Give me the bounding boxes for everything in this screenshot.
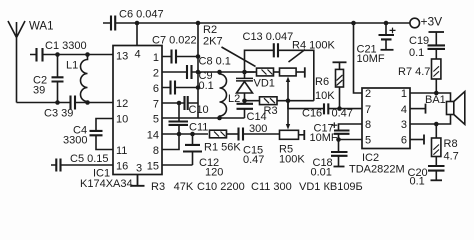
svg-text:R3 47K: R3 47K [151,181,194,193]
node: C12 drop [190,132,195,137]
svg-text:C8 0.1: C8 0.1 [199,56,231,68]
node: L2 top [217,70,222,75]
svg-text:300: 300 [249,123,267,135]
terminal +3V [410,18,420,28]
wire: +3V top rail [137,22,410,24]
wire: tank top row to pin 13 [58,54,114,56]
svg-text:+3V: +3V [421,15,443,29]
wire: IC2 pin 5 row [339,139,363,141]
resistor R7 [432,59,441,93]
capacitor C18 [331,140,348,167]
capacitor C20 [428,166,445,180]
svg-text:0.1: 0.1 [410,176,425,188]
svg-text:14: 14 [147,129,159,141]
wire: pin 8 row riser to pin14 row [162,134,179,150]
node: C17/C18 junction [336,137,341,142]
diode VD1 (varicap) [236,72,253,101]
capacitor C19 [428,32,446,59]
capacitor C14 [237,101,254,118]
svg-text:10MF: 10MF [310,132,338,144]
wire: wiper drop to C16 row [288,101,362,109]
svg-text:R8: R8 [444,138,458,150]
op-amp / radio IC U1: IC1 K174XA34 box [113,46,162,175]
node: VD1 top (tank node) [242,70,247,75]
node: L1 bottom junction [85,100,90,105]
svg-text:10MF: 10MF [357,53,385,65]
svg-text:1: 1 [401,88,407,100]
potentiometer R5 [280,130,305,140]
svg-text:100K: 100K [279,154,305,166]
svg-text:VD1 КВ109Б: VD1 КВ109Б [299,181,363,193]
resistor R1 [210,130,239,138]
svg-text:6: 6 [153,83,159,95]
svg-text:15: 15 [147,160,159,172]
capacitor C13 [245,43,314,100]
resistor R6 [333,62,347,108]
svg-text:8: 8 [153,145,159,157]
svg-text:R6: R6 [315,76,329,88]
svg-text:C1 3300: C1 3300 [45,40,87,52]
svg-text:0.47: 0.47 [332,108,353,120]
wire: pin 3 row to speaker bottom [410,115,451,125]
inductor L1 [81,55,88,103]
amplifier IC2 TDA2822M box [362,88,410,149]
svg-text:120: 120 [205,167,223,179]
IC1 pin numbers left: 13,12,10,11,16 [116,50,128,172]
capacitor C15 [239,128,280,141]
wire: C8 node to varicap tank row [198,71,255,73]
node: R6 bottom [337,106,342,111]
svg-text:16: 16 [116,160,128,172]
wire: pin 14 row [162,133,208,135]
wire: pin 5 row to L2 bottom and C14 [162,117,245,119]
svg-text:12: 12 [116,98,128,110]
svg-text:5: 5 [153,113,159,125]
svg-text:7: 7 [153,98,159,110]
capacitor C7 [162,50,198,64]
node: R8 top / pin3 [434,122,439,127]
node on bus (pin6 row) [196,85,201,90]
node on bus (pin2 row) [196,70,201,75]
svg-text:2: 2 [365,88,371,100]
IC1 pin numbers right: 1,2,6,7,5,14,8,15 [147,52,159,173]
svg-text:10K: 10K [315,90,335,102]
svg-text:C6 0.047: C6 0.047 [119,9,164,21]
svg-text:0.01: 0.01 [311,167,332,179]
svg-text:C13 0.047: C13 0.047 [243,31,294,43]
IC2 pin 6 stub [410,135,424,145]
IC2 pin numbers [365,88,407,147]
capacitor C4 [90,119,114,150]
node: VD1 bottom [242,98,247,103]
svg-text:4: 4 [135,49,141,61]
capacitor C10 [162,96,198,110]
capacitor C5 [51,159,113,172]
resistor R3 [260,97,278,105]
svg-text:C7 0.022: C7 0.022 [152,35,197,47]
node: pin7 junction [177,101,182,106]
svg-text:0.1: 0.1 [199,80,214,92]
svg-text:3300: 3300 [63,135,87,147]
capacitor C6 [103,16,137,31]
svg-text:TDA2822M: TDA2822M [349,164,405,176]
svg-text:L1: L1 [66,60,78,72]
R5 wiper arrow [286,101,290,130]
wire: antenna mast to pin 12 (bottom of input tank) [17,102,114,104]
svg-text:C11 300: C11 300 [251,181,292,193]
capacitor C9 [162,81,198,95]
svg-text:11: 11 [116,145,127,157]
node: C11/pin8 riser [177,132,182,137]
ground (IC1 pin 3) [131,175,145,186]
svg-text:0.1: 0.1 [409,47,424,59]
svg-text:5: 5 [365,135,371,147]
node: L2 bottom [217,116,222,121]
node: C21 top [384,21,389,26]
svg-text:K174XA34: K174XA34 [80,178,133,190]
svg-text:VD1: VD1 [254,78,275,90]
node: C1/C2 junction [55,52,60,57]
svg-text:2: 2 [153,67,159,79]
potentiometer R4 [274,67,305,77]
inductor L2 [220,72,227,118]
svg-text:10: 10 [116,113,128,125]
node: R7 bottom / pin1 [434,91,439,96]
node: L1 top junction [85,52,90,57]
svg-text:4: 4 [401,104,407,116]
capacitor C17 (electrolytic) [331,122,362,139]
svg-text:3: 3 [136,163,142,175]
wire: supply riser to IC2 pin 2 [354,23,363,93]
svg-text:BA1: BA1 [425,94,446,106]
svg-text:3: 3 [401,119,407,131]
IC2 pin 4 stub [410,104,426,114]
svg-text:C16: C16 [302,108,322,120]
svg-text:R1 56K: R1 56K [204,142,241,154]
capacitor C11 [169,103,189,134]
wire: common bus (C7/C8/C9/C10 junction column) [197,23,199,118]
speaker BA1 [447,92,465,125]
capacitor C8 [162,65,198,79]
capacitor C16 [324,103,328,114]
capacitor C3 (in-line plates) [71,96,76,110]
capacitor C1 [30,48,58,62]
R4 wiper arrow [286,77,290,101]
wire: R3 row (VD1 bottom to C13 right riser) [245,100,314,102]
svg-text:7: 7 [365,104,371,116]
node: IC2 supply riser top [351,21,356,26]
svg-text:2K7: 2K7 [203,36,223,48]
svg-text:IC2: IC2 [362,152,379,164]
resistor R2 [245,68,274,76]
node: common bus top [196,21,201,26]
svg-text:R2: R2 [203,24,217,36]
svg-text:R3: R3 [264,105,278,117]
svg-text:C11: C11 [189,122,208,134]
node: C6/pin4 [135,21,140,26]
svg-text:C10: C10 [189,104,209,116]
resistor R8 [432,124,441,166]
svg-text:C19: C19 [409,35,429,47]
capacitor C21 (electrolytic) [379,23,396,50]
node: wiper junction [286,98,291,103]
capacitor C2 [52,55,64,103]
svg-text:WA1: WA1 [29,21,54,33]
svg-text:C3 39: C3 39 [44,108,73,120]
svg-text:R7 4.7: R7 4.7 [398,66,430,78]
svg-text:39: 39 [33,85,45,97]
svg-text:0.47: 0.47 [243,154,264,166]
svg-text:C10 2200: C10 2200 [197,181,245,193]
wire: pin 4 riser [136,23,138,46]
svg-text:1: 1 [153,52,159,64]
node on bus (pin1 row) [196,54,201,59]
antenna WA1 [8,21,25,103]
node: C2 bottom junction [55,100,60,105]
wire: pin 1 row to speaker top [410,93,451,102]
svg-text:C5 0.15: C5 0.15 [70,153,109,165]
capacitor C12 [162,134,202,165]
svg-text:13: 13 [116,50,128,62]
svg-text:8: 8 [365,119,371,131]
svg-text:6: 6 [401,135,407,147]
svg-text:4.7: 4.7 [444,151,459,163]
